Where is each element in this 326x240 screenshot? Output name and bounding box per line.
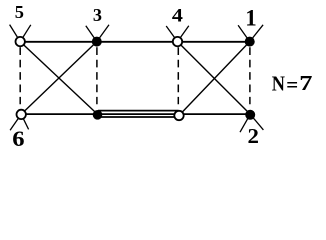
svg-text:4: 4 <box>172 4 184 26</box>
svg-text:2: 2 <box>248 124 259 146</box>
wire: diagonal node5 to b2 <box>20 42 97 115</box>
svg-text:N: N <box>272 72 286 96</box>
wire: top horizontal edge node5-node1 <box>20 41 250 43</box>
wire: dashed vertical col 1 (node5-node6) <box>19 47 21 104</box>
node 2 (filled circle, bottom-right) <box>245 110 255 120</box>
wire: dashed vertical col 3 (node4-b3) <box>177 47 179 104</box>
wire: diagonal node4 to node2 <box>178 42 251 115</box>
wire: bottom horizontal edge node6-node2 <box>21 113 250 115</box>
svg-text:6: 6 <box>12 127 24 146</box>
svg-text:5: 5 <box>15 2 24 22</box>
wire: dashed vertical col 4 (node1-node2) <box>249 47 251 104</box>
leg node3 up-left <box>86 26 97 42</box>
leg node2 down-left <box>240 114 250 132</box>
node 5 (open circle, top-left) <box>16 37 25 46</box>
leg node5 up-right <box>20 25 31 42</box>
node b2 (filled circle, bottom) <box>93 110 103 120</box>
svg-text:7: 7 <box>299 72 312 95</box>
wire: diagonal node6 to node3 <box>21 42 97 115</box>
node b3 (open circle, bottom) <box>174 111 183 120</box>
leg node4 up-left <box>166 26 177 42</box>
leg node1 up-right <box>250 25 263 42</box>
leg node6 down-right <box>21 114 28 129</box>
leg node2 down-right <box>250 114 263 130</box>
wire: dashed vertical col 2 (node3-b2) <box>96 47 98 104</box>
wire: triple edge lower line b2-b3 <box>98 116 179 118</box>
node 3 (filled circle, top) <box>92 37 102 47</box>
node 1 (filled circle, top-right) <box>245 37 255 47</box>
leg node4 up-right <box>178 26 189 42</box>
svg-text:3: 3 <box>93 5 102 25</box>
svg-text:=: = <box>286 73 298 97</box>
node 6 (open circle, bottom-left) <box>17 110 26 119</box>
leg node1 up-left <box>238 25 250 41</box>
leg node5 up-left <box>10 25 21 42</box>
svg-text:1: 1 <box>245 5 256 30</box>
wire: triple edge upper line b2-b3 <box>98 110 179 112</box>
leg node6 down-left <box>10 114 21 130</box>
wire: diagonal b3 to node1 <box>179 42 250 116</box>
leg node3 up-right <box>97 25 109 42</box>
node 4 (open circle, top) <box>173 37 182 46</box>
